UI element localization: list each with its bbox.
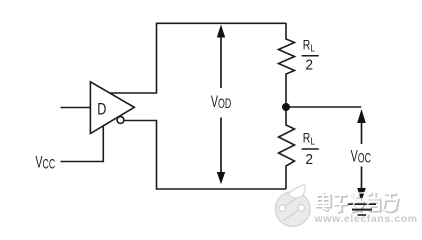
svg-text:VOD: VOD xyxy=(211,93,231,112)
svg-text:VOC: VOC xyxy=(351,147,371,166)
VOC arrow xyxy=(357,109,366,201)
VOD arrow xyxy=(217,25,225,185)
watermark strokes crossing ground xyxy=(353,192,370,206)
label RL/2 top xyxy=(302,37,319,72)
resistor RL/2 bottom xyxy=(279,111,295,190)
resistor RL/2 top xyxy=(279,23,295,104)
svg-text:2: 2 xyxy=(305,151,313,167)
wire: node to VOC xyxy=(288,106,361,108)
ground xyxy=(348,204,376,215)
svg-text:D: D xyxy=(97,100,106,119)
label RL/2 bottom xyxy=(302,130,319,167)
svg-text:VCC: VCC xyxy=(35,153,55,172)
watermark text 电子发烧友 xyxy=(317,192,398,213)
wire: noninverting output to top rail xyxy=(110,23,286,93)
wire: Vcc to driver xyxy=(61,126,104,162)
svg-text:2: 2 xyxy=(305,56,313,72)
inverting output bubble xyxy=(117,117,124,124)
node junction dot xyxy=(282,103,290,111)
driver input wire xyxy=(61,107,91,109)
driver U1 triangle xyxy=(90,82,134,134)
wire: inverting output to bottom rail xyxy=(124,121,286,190)
watermark logo xyxy=(275,185,310,227)
